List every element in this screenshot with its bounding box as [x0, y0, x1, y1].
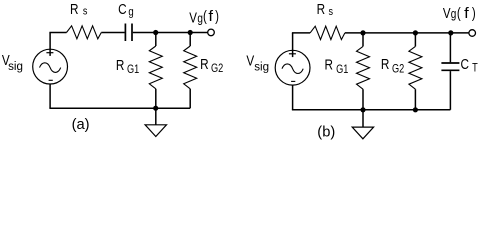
svg-text:R: R [317, 1, 325, 18]
junction dot node RG2 top (a) [188, 30, 193, 35]
junction dot bottom node (a) [153, 106, 158, 111]
svg-text:(: ( [203, 8, 207, 25]
svg-text:R: R [116, 57, 124, 74]
wire source top lead (b) [292, 33, 294, 57]
label Vg(f) node (b) [443, 4, 476, 22]
svg-text:C: C [461, 56, 470, 73]
capacitor Cg (a) [125, 24, 132, 42]
svg-text:R: R [381, 56, 389, 73]
junction dot node CT top (b) [448, 30, 453, 35]
wire bottom rail (a) [49, 107, 190, 109]
wire source top lead (a) [49, 33, 51, 56]
label Vsig (b) [246, 52, 269, 73]
resistor Rs (a) [67, 26, 102, 39]
wire top rail left segment (b) [292, 32, 310, 34]
svg-text:R: R [70, 1, 78, 18]
svg-text:g: g [451, 8, 457, 21]
svg-text:R: R [200, 56, 208, 73]
junction dot node RG1 top (a) [153, 30, 158, 35]
wire top rail right segment (a) [133, 32, 208, 34]
ground (a) [145, 108, 166, 136]
svg-text:R: R [325, 56, 333, 73]
svg-text:G2: G2 [392, 64, 404, 76]
svg-text:C: C [118, 1, 127, 18]
svg-text:s: s [83, 6, 88, 18]
node Vg(f) terminal (b) [469, 30, 476, 37]
svg-text:(b): (b) [317, 124, 335, 140]
svg-text:sig: sig [8, 59, 23, 73]
label RG2 (b) [381, 56, 405, 76]
resistor Rs (b) [310, 26, 345, 39]
resistor RG2 (a) [184, 33, 197, 109]
label RG1 (b) [325, 56, 349, 76]
resistor RG2 (b) [409, 33, 422, 110]
wire top rail left segment (a) [49, 32, 66, 34]
svg-text:V: V [246, 52, 254, 69]
wire top rail right segment (b) [345, 32, 469, 34]
svg-text:G2: G2 [211, 63, 223, 75]
svg-text:(: ( [457, 5, 461, 22]
junction dot bottom node RG2 (b) [413, 107, 418, 112]
label RG2 (a) [200, 56, 223, 75]
svg-text:g: g [197, 13, 203, 26]
svg-text:g: g [128, 5, 133, 18]
label RG1 (a) [116, 57, 140, 77]
label Vsig (a) [2, 52, 23, 73]
label Rs (b) [317, 1, 333, 18]
svg-text:s: s [329, 6, 334, 18]
wire bottom rail (b) [292, 109, 451, 111]
label CT (b) [461, 56, 479, 75]
junction dot node RG1 top (b) [360, 30, 365, 35]
label Vg(f) node (a) [189, 8, 219, 26]
junction dot bottom node RG1 (b) [360, 107, 365, 112]
svg-text:(a): (a) [72, 117, 90, 133]
svg-text:V: V [189, 9, 197, 26]
svg-text:): ) [215, 8, 219, 25]
node Vg(f) terminal (a) [208, 29, 215, 36]
minus polarity mark (a) [49, 79, 53, 81]
svg-text:G1: G1 [127, 64, 139, 76]
junction dot node RG2 top (b) [413, 30, 418, 35]
voltage source Vsig (b) [275, 50, 310, 85]
capacitor CT (b) [441, 33, 459, 110]
ground (b) [352, 110, 373, 139]
svg-text:V: V [443, 4, 451, 21]
wire Rs to Cg (a) [101, 32, 124, 34]
resistor RG1 (b) [357, 33, 370, 110]
resistor RG1 (a) [149, 33, 162, 109]
voltage source Vsig (a) [33, 49, 68, 84]
svg-text:): ) [472, 5, 476, 22]
svg-text:f: f [464, 6, 469, 22]
svg-text:T: T [472, 63, 478, 75]
plus polarity mark (b) [289, 53, 296, 55]
minus polarity mark (b) [291, 80, 295, 82]
svg-text:G1: G1 [336, 64, 348, 76]
wire source bottom lead (b) [292, 85, 294, 110]
label Rs (a) [70, 1, 87, 18]
svg-text:sig: sig [254, 59, 269, 73]
svg-text:f: f [208, 9, 213, 25]
label Cg (a) [118, 1, 134, 19]
wire source bottom lead (a) [49, 84, 51, 108]
plus polarity mark (a) [46, 52, 53, 54]
